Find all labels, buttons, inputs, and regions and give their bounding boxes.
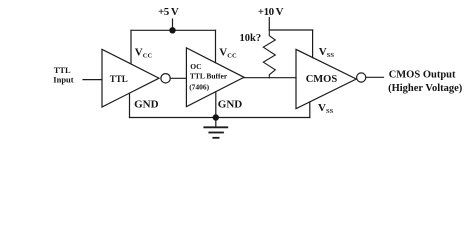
svg-text:CMOS: CMOS [306,74,338,85]
ground symbol bar2 [209,132,223,134]
bubble U1 output [161,74,170,83]
wire +10V horizontal to CMOS [269,29,312,31]
svg-text:(Higher Voltage): (Higher Voltage) [388,83,463,94]
svg-text:GND: GND [218,99,243,111]
wire +10V stem [268,18,270,31]
wire U2 output to U3 input (node with resistor) [244,77,296,79]
svg-text:Input: Input [53,74,73,84]
wire +5V rail [131,29,216,31]
junction dot ground rail [213,114,219,120]
wire U1 output to U2 input [170,77,186,79]
inverter U3 CMOS triangle [296,49,356,108]
wire VSS top pin U3 [312,30,314,58]
svg-text:TTL: TTL [110,74,128,84]
buffer U2 7406 triangle [186,48,244,107]
svg-text:OC: OC [190,62,201,71]
svg-text:(7406): (7406) [189,83,209,92]
inverter U1 TTL triangle [102,49,159,107]
wire GND pin U1 [129,93,131,117]
svg-text:TTL: TTL [54,65,71,75]
junction dot +5V rail [169,27,175,33]
svg-text:+10 V: +10 V [258,6,284,18]
ground symbol bar1 [204,126,227,128]
svg-text:TTL Buffer: TTL Buffer [190,71,228,80]
ground symbol stub [215,118,217,128]
wire output [366,76,384,78]
wire input [83,79,102,81]
resistor R1 10k zigzag [263,30,275,78]
wire +5V stem [172,19,174,30]
svg-text:10k?: 10k? [240,33,262,44]
wire ground rail [130,117,310,119]
wire VSS bottom pin U3 [309,102,311,118]
bubble U3 output [357,73,366,82]
svg-text:CMOS Output: CMOS Output [389,69,456,80]
wire GND pin U2 [215,92,217,118]
wire VCC pin U1 [130,30,132,64]
svg-text:GND: GND [134,98,159,110]
svg-text:+5 V: +5 V [158,6,179,18]
ground symbol bar3 [213,137,218,139]
wire VCC pin U2 [215,30,217,63]
